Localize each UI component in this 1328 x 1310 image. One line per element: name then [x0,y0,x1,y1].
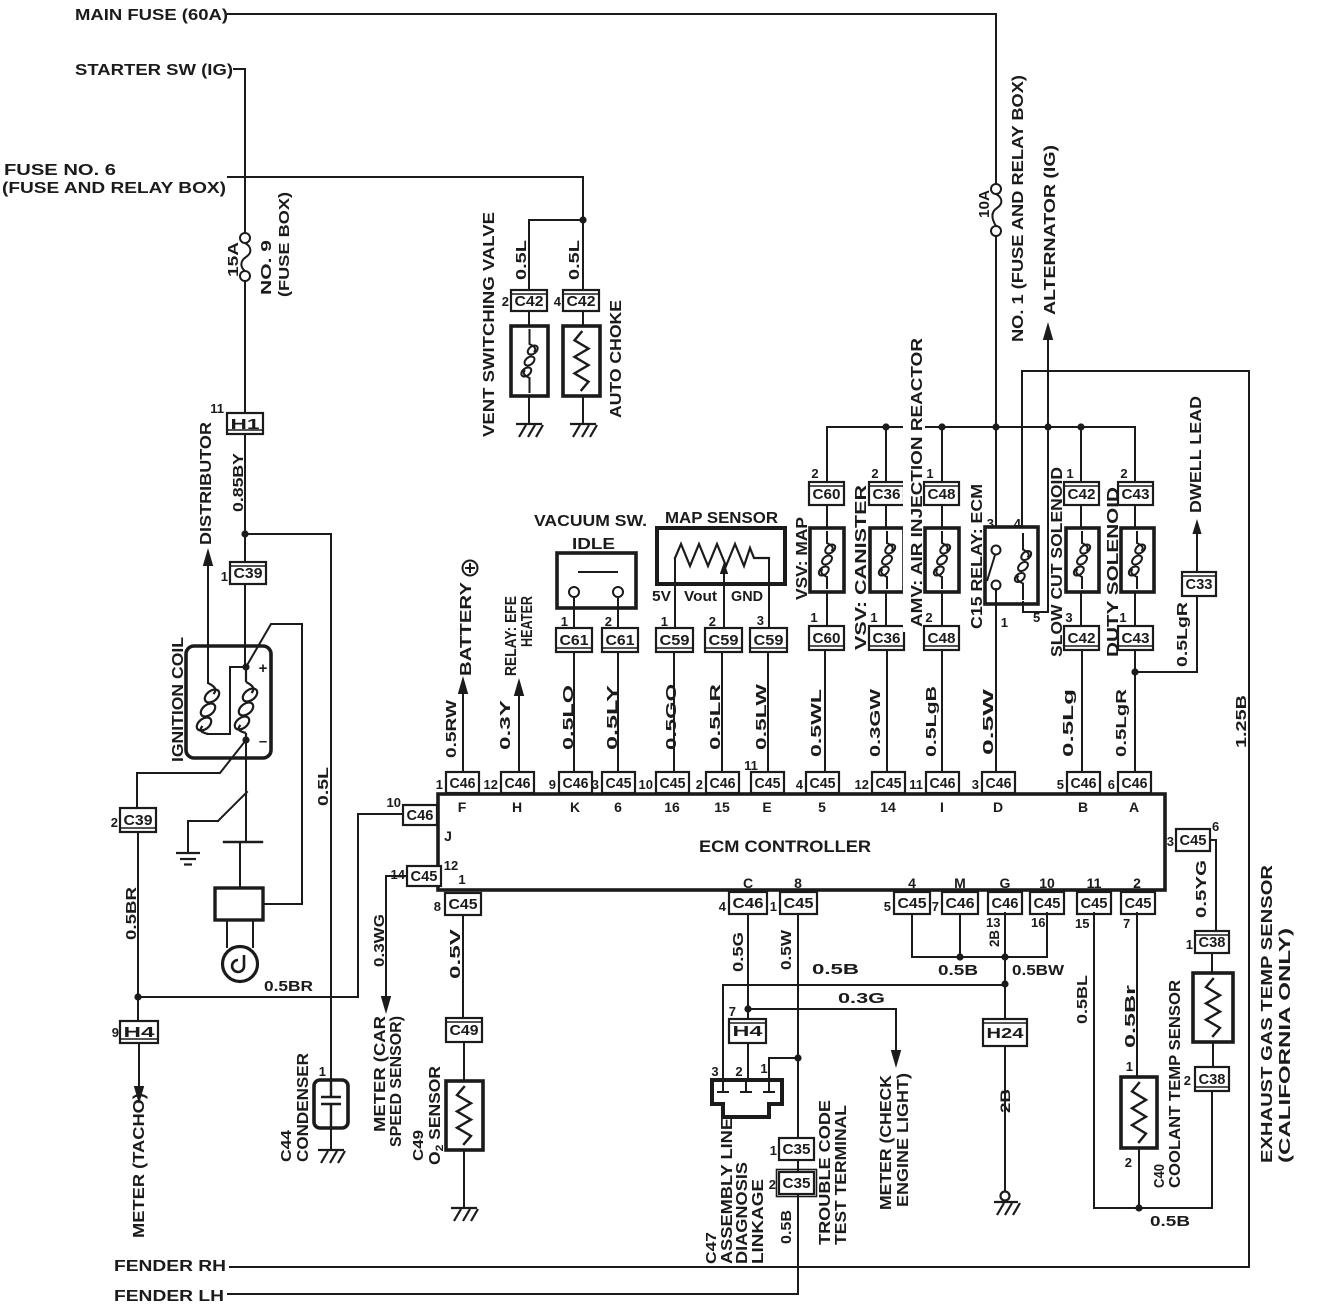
connector C46 ECM terminal H [501,772,534,793]
vacuum switch contacts [569,572,623,597]
svg-text:0.5B: 0.5B [938,962,978,979]
wire 0.5BR to ECM pin J [138,814,403,997]
svg-text:E: E [762,799,771,815]
svg-text:11: 11 [744,758,758,773]
svg-text:DWELL LEAD: DWELL LEAD [1188,396,1205,513]
svg-text:J: J [444,828,452,844]
svg-text:Vout: Vout [684,588,717,605]
connector C39 pin1 [230,562,266,584]
svg-text:1: 1 [221,569,228,584]
component AMV air injection reactor solenoid [925,528,959,592]
svg-text:FENDER RH: FENDER RH [114,1258,226,1275]
wire C42 to vent valve [528,311,530,326]
svg-text:2: 2 [111,815,118,830]
wire secondary to + terminal [208,667,246,734]
svg-text:C44: C44 [278,1129,295,1162]
svg-text:H: H [512,799,522,815]
svg-text:0.5B: 0.5B [778,1210,795,1244]
svg-text:0.5L: 0.5L [315,767,332,806]
svg-text:1: 1 [810,610,817,625]
svg-text:0.5GO: 0.5GO [663,684,680,750]
wire branch to C33 [1135,596,1197,672]
wire ignition bus [827,426,1135,428]
connector C35 pin2 [777,1170,817,1197]
connector C38 pin2 [1195,1067,1229,1091]
svg-text:GND: GND [731,588,763,605]
svg-text:6: 6 [614,799,622,815]
svg-text:ALTERNATOR (IG): ALTERNATOR (IG) [1042,145,1059,315]
connector C46 ECM terminal A [1118,772,1151,793]
svg-text:6: 6 [1212,819,1219,834]
wire C38 pin2 down to 0.5B return [1211,1091,1213,1208]
wire ECM G to H24 [1004,913,1006,1019]
svg-text:EXHAUST GAS TEMP SENSOR: EXHAUST GAS TEMP SENSOR [1259,864,1276,1163]
wire C48 to AMV [941,505,943,528]
wire starter sw to 15A fuse [234,69,245,233]
svg-text:2: 2 [769,1177,776,1192]
svg-text:3: 3 [972,777,979,792]
wire C48 pin2 to ECM I [941,650,943,772]
svg-text:C45: C45 [411,868,438,885]
node 0.5BW junction [1001,953,1008,960]
svg-text:C45: C45 [1180,832,1207,849]
connector C45 pin8 (O2 sensor) [445,893,481,915]
wire C39 to ignition coil + [244,584,246,668]
wire EGT sensor to C38 pin2 [1212,1042,1214,1067]
svg-text:10: 10 [639,777,653,792]
connector C33 [1182,572,1216,596]
wire C38 to EGT sensor [1211,953,1213,973]
svg-text:0.5L: 0.5L [513,240,530,280]
battery plus symbol [463,561,478,576]
svg-text:3: 3 [757,613,764,628]
connector C39 pin2 [120,808,156,832]
connector C43 pin2 [1118,482,1153,505]
svg-text:3: 3 [1065,610,1072,625]
wire MAP Vout lead [723,584,725,628]
arrow to meter (car speed sensor) [381,996,391,1014]
svg-text:(FUSE AND RELAY BOX): (FUSE AND RELAY BOX) [2,180,226,197]
svg-text:C59: C59 [709,632,739,649]
svg-text:C36: C36 [873,486,901,503]
svg-text:C47: C47 [703,1232,720,1264]
wire relay pin1 to ECM D [995,589,997,772]
svg-text:0.5LgR: 0.5LgR [1113,689,1130,757]
svg-text:7: 7 [932,899,939,914]
svg-text:5: 5 [818,799,826,815]
svg-text:FUSE NO. 6: FUSE NO. 6 [4,162,116,179]
svg-text:C46: C46 [946,895,975,912]
svg-text:15: 15 [714,799,730,815]
svg-text:0.3G: 0.3G [838,990,885,1007]
svg-text:7: 7 [1123,916,1130,931]
wire C42 to auto choke [582,311,584,326]
svg-text:C35: C35 [783,1141,811,1158]
svg-text:3: 3 [592,777,599,792]
connector C46 ECM bottom terminal G [988,892,1022,914]
svg-text:1: 1 [458,872,465,887]
node 0.5B diagnosis junction [1001,980,1008,987]
svg-text:C46: C46 [563,775,589,792]
svg-text:1: 1 [1126,1059,1133,1074]
svg-text:2: 2 [1120,466,1127,481]
coil of VSV canister [877,531,897,589]
ignition coil secondary winding [194,683,221,734]
wire C36 to VSV canister [885,505,887,528]
svg-text:C60: C60 [813,486,841,503]
node bus junction slow cut [1077,423,1084,430]
wire ECM 11 to 0.5B return line [1094,913,1212,1208]
resistor element of coolant temp sensor [1132,1083,1146,1142]
svg-text:0.5B: 0.5B [1150,1213,1190,1230]
connector C45 ECM bottom terminal 2 [1121,892,1155,914]
svg-text:VACUUM SW.: VACUUM SW. [534,513,647,530]
svg-text:2: 2 [696,777,703,792]
component C15 relay ECM [985,527,1038,604]
svg-text:1: 1 [1186,937,1193,952]
wire relay pin4 up to 1.25B loop [1021,371,1023,527]
svg-text:M: M [954,875,966,891]
node bus junction main fuse [992,423,999,430]
svg-text:ENGINE LIGHT): ENGINE LIGHT) [895,1073,912,1207]
node ignition coil + terminal [242,663,249,670]
connector C59 pin1 [656,628,693,652]
wire branch to vent switching valve [529,220,583,290]
wire C59 pin1 to ECM 16 [673,652,675,772]
svg-text:(CALIFORNIA ONLY): (CALIFORNIA ONLY) [1277,928,1294,1163]
svg-text:2: 2 [1133,875,1141,891]
component slow cut solenoid [1066,528,1099,592]
wire auto choke to ground [582,396,584,424]
svg-text:CONDENSER: CONDENSER [295,1053,312,1162]
wire 10A fuse to bus [995,236,997,427]
svg-text:4: 4 [554,294,562,309]
wire C35 to fender LH [797,1194,799,1294]
wire C61 pin2 to ECM 6 [617,652,619,772]
svg-text:2: 2 [871,466,878,481]
wire ECM 8 to C35 [797,914,799,1138]
svg-text:C42: C42 [567,293,596,310]
wire ECM to C49 [462,915,464,1018]
component duty solenoid [1121,528,1154,592]
svg-text:C46: C46 [710,775,736,792]
connector H1 [227,413,263,434]
svg-text:15A: 15A [225,242,242,277]
svg-text:11: 11 [909,777,923,792]
svg-text:5V: 5V [652,588,671,605]
node ignition junction [241,530,248,537]
svg-text:C42: C42 [1068,630,1096,647]
wire H4 to diagnosis connector pin2 [747,1043,749,1080]
coil of duty solenoid [1127,531,1147,589]
wire C59 pin2 to ECM 15 [721,652,723,772]
connector C45 ECM terminal E [751,772,784,793]
wire M terminal drop [959,914,961,957]
node bus junction AMV [938,423,945,430]
svg-text:0.5LgR: 0.5LgR [1174,602,1191,667]
svg-text:C: C [743,875,753,891]
wire coil - to C39 pin2 [137,740,246,808]
svg-text:HEATER: HEATER [519,596,536,647]
relay coil [1013,533,1033,600]
wire relay pin5 to alternator node [1023,427,1048,612]
connector C42 pin2 (vent valve) [511,290,547,311]
wire fuse no.6 feed [228,177,583,220]
svg-text:3: 3 [711,1064,718,1079]
svg-text:2: 2 [735,1064,742,1079]
svg-text:C36: C36 [873,630,901,647]
svg-text:0.5RW: 0.5RW [443,699,460,758]
connector C45 ECM terminal 16 [656,772,689,793]
connector H4 pin7 [729,1019,766,1043]
svg-text:1: 1 [1066,466,1073,481]
wire C61 pin1 to ECM K [573,652,575,772]
wire MAP 5V lead [674,558,676,628]
fuse 10A (No.1 fuse and relay box) [991,184,1001,236]
ground at igniter base [176,853,200,865]
svg-text:9: 9 [112,1025,119,1040]
wire alternator arrow shaft [1047,340,1049,427]
resistor element of EGT sensor [1206,979,1220,1036]
svg-text:13: 13 [986,915,1000,930]
component auto choke [563,326,600,396]
fuse 15A (No.9 fuse box) [240,233,250,281]
svg-text:16: 16 [664,799,680,815]
svg-text:C45: C45 [898,895,927,912]
svg-text:12: 12 [484,777,498,792]
node bus junction alternator [1044,423,1051,430]
svg-text:C48: C48 [928,486,956,503]
svg-text:7: 7 [729,1004,736,1019]
connector C46 ECM terminal F [446,772,479,793]
wire C59 pin3 to ECM E [767,652,769,772]
component VSV canister solenoid [870,528,904,592]
svg-text:C61: C61 [606,632,635,649]
svg-text:–: – [259,733,267,750]
coil of vent switching valve [520,329,540,393]
wire vent valve to ground [528,396,530,424]
svg-text:MAIN FUSE (60A): MAIN FUSE (60A) [75,7,228,24]
svg-text:C46: C46 [1122,775,1148,792]
wire diagnosis pin3 0.5B [723,985,1005,1080]
connector C36 pin1 [869,626,904,650]
svg-text:IDLE: IDLE [572,536,615,553]
svg-text:METER (CAR: METER (CAR [372,1015,389,1132]
wire C42 pin3 to ECM B [1081,650,1083,772]
svg-text:11: 11 [1087,875,1102,891]
svg-text:0.5L: 0.5L [566,240,583,280]
connector C45 ECM right (EGT sensor) [1176,829,1210,851]
svg-text:C38: C38 [1199,1071,1226,1088]
svg-text:ECM CONTROLLER: ECM CONTROLLER [699,837,871,856]
arrow to alternator (IG) [1043,322,1053,340]
svg-text:C45: C45 [755,775,781,792]
wire fender LH ground line [228,1293,798,1295]
component igniter unit [215,888,263,920]
svg-text:B: B [1078,799,1088,815]
connector C35 pin1 [779,1138,814,1160]
wire to meter car speed sensor [386,876,407,998]
svg-text:C43: C43 [1122,630,1150,647]
wire AMV to C48 pin2 [941,594,943,626]
node 0.3G branch junction [744,1005,751,1012]
svg-text:BATTERY: BATTERY [458,582,475,676]
svg-text:0.3Y: 0.3Y [497,700,514,750]
wire C60 to VSV MAP [826,505,828,528]
svg-text:RELAY: EFE: RELAY: EFE [503,596,520,676]
node 0.5BR junction [134,993,141,1000]
wire bus to C42 pin1 [1080,427,1082,482]
svg-text:1: 1 [770,899,777,914]
connector C42 pin1 (slow cut) [1064,482,1099,505]
capacitor element of condenser [321,1080,341,1128]
svg-text:1.25B: 1.25B [1233,695,1250,748]
wire H4 to meter tacho [138,1043,140,1088]
connector C45 ECM terminal 6 [602,772,635,793]
svg-text:5: 5 [1057,777,1064,792]
svg-text:1: 1 [1001,615,1008,630]
svg-text:15: 15 [1075,916,1089,931]
connector C49 [446,1018,482,1042]
svg-text:C61: C61 [560,632,589,649]
node fuse6 branch junction [579,216,586,223]
connector C60 pin2 [809,482,844,505]
svg-text:SPEED SENSOR): SPEED SENSOR) [388,1016,405,1147]
ignition coil primary winding [232,668,259,740]
connector C61 pin1 [556,628,592,652]
svg-text:NO. 1 (FUSE AND RELAY BOX): NO. 1 (FUSE AND RELAY BOX) [1010,75,1027,342]
svg-text:C59: C59 [660,632,690,649]
connector C59 pin3 [750,628,787,652]
svg-text:C48: C48 [928,630,956,647]
svg-text:D: D [993,799,1003,815]
node ignition coil - terminal [242,736,249,743]
svg-text:2B: 2B [986,930,1002,947]
svg-text:C45: C45 [449,896,478,913]
node test terminal junction [794,1054,801,1061]
svg-text:0.5YG: 0.5YG [1193,860,1210,918]
svg-text:H4: H4 [733,1023,764,1040]
wire C36 pin1 to ECM 14 [886,650,888,772]
svg-text:0.5G: 0.5G [730,932,747,972]
component exhaust gas temp sensor [1193,973,1233,1042]
svg-text:16: 16 [1031,915,1045,930]
svg-text:0.5LgB: 0.5LgB [923,686,940,757]
svg-text:C42: C42 [1068,486,1096,503]
svg-text:C46: C46 [930,775,956,792]
connector C45 ECM bottom terminal 4 [894,892,930,914]
wire ECM 2 to coolant temp sensor [1136,913,1138,1077]
svg-text:1: 1 [561,614,568,629]
wire 1.25B loop and fender RH ground line [230,371,1249,1267]
connector C46 ECM terminal 15 [706,772,739,793]
svg-text:9: 9 [549,777,556,792]
component MAP sensor [657,528,785,584]
svg-text:TEST TERMINAL: TEST TERMINAL [833,1105,850,1245]
wire coolant sensor to 0.5B return [1138,1148,1140,1208]
component ECM controller box [438,794,1165,890]
wire 15A fuse to H1 [244,281,246,413]
svg-text:0.5W: 0.5W [980,687,997,755]
svg-text:H4: H4 [124,1024,156,1041]
svg-text:+: + [259,660,268,677]
wire main fuse feed to 10A fuse [228,14,996,184]
wire 0.5L branch to condenser [245,533,331,535]
wire bus to C43 pin2 [1134,427,1136,482]
arrow to distributor [207,566,209,683]
svg-text:14: 14 [391,867,406,882]
node duty solenoid dwell branch [1131,668,1138,675]
connector C47 assembly line diagnosis linkage [712,1080,782,1117]
svg-text:1: 1 [760,1061,767,1076]
svg-text:K: K [570,799,580,815]
svg-text:TROUBLE CODE: TROUBLE CODE [817,1100,834,1245]
svg-text:C59: C59 [754,632,784,649]
wire igniter case to coil + [263,903,302,905]
svg-text:LINKAGE: LINKAGE [750,1179,767,1264]
transistor igniter [218,792,247,821]
wire igniter base lead [188,821,218,852]
resistor element of auto choke [575,332,589,390]
svg-text:C33: C33 [1186,576,1213,593]
svg-text:STARTER SW (IG): STARTER SW (IG) [75,62,233,79]
svg-text:VENT SWITCHING VALVE: VENT SWITCHING VALVE [481,212,498,437]
connector C45 ECM terminal 5 [806,772,839,793]
spark plug [226,920,228,947]
svg-text:5: 5 [884,899,891,914]
connector C43 pin1 [1118,626,1153,650]
connector C46 ECM terminal J [403,805,437,825]
arrow to meter tacho [134,1086,144,1104]
arrow to battery [458,676,468,694]
svg-text:1: 1 [1119,610,1126,625]
svg-text:0.5B: 0.5B [812,961,859,978]
wire 0.5B 0.5BW link [912,913,1047,957]
svg-text:0.3WG: 0.3WG [371,914,388,967]
ground auto choke [570,424,597,437]
svg-text:1: 1 [926,466,933,481]
svg-text:4: 4 [719,899,727,914]
wire diagnosis pin1 link [769,1058,798,1080]
svg-text:4: 4 [796,777,804,792]
svg-text:C45: C45 [784,895,814,912]
arrow to relay EFE heater [514,678,524,696]
coil of AMV [932,531,952,589]
connector C42 pin3 (slow cut) [1064,626,1099,650]
svg-text:F: F [458,799,467,815]
ground condenser [318,1150,345,1163]
svg-text:NO. 9: NO. 9 [258,240,275,295]
connector H24 [983,1019,1027,1046]
svg-text:6: 6 [1108,777,1115,792]
wire H24 to body ground [1004,1046,1006,1191]
svg-text:G: G [1000,875,1011,891]
component vent switching valve [511,326,548,396]
wire ECM C to H4 [747,914,749,1019]
connector C45 ECM bottom terminal 8 [780,892,817,914]
svg-text:C35: C35 [783,1175,811,1192]
resistor element of O2 sensor [457,1087,471,1144]
connector C46 ECM terminal I [926,772,959,793]
ground O2 sensor [451,1208,478,1221]
svg-text:8: 8 [434,899,441,914]
diagnosis connector pins 3 2 1 [717,1080,775,1092]
wire C42 to slow cut solenoid [1080,505,1082,528]
svg-text:11: 11 [210,401,224,416]
svg-text:0.5W: 0.5W [778,929,795,970]
svg-text:2: 2 [1184,1073,1191,1088]
svg-text:DIAGNOSIS: DIAGNOSIS [734,1162,751,1264]
